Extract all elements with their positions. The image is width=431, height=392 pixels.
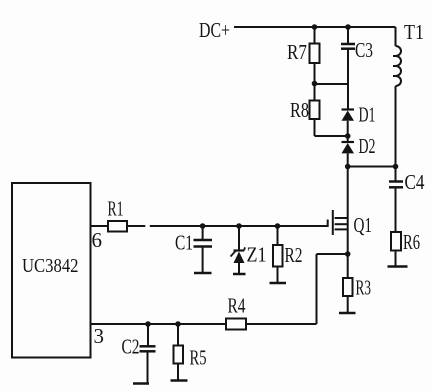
- svg-text:C1: C1: [175, 231, 193, 255]
- node junction top rail / C3: [345, 24, 351, 30]
- resistor R1: [108, 197, 128, 232]
- zener diode Z1: [231, 226, 267, 274]
- node junction T1/C4: [393, 164, 399, 170]
- resistor R4: [226, 294, 246, 330]
- svg-text:Z1: Z1: [247, 243, 267, 267]
- svg-text:T1: T1: [404, 20, 424, 44]
- svg-text:R1: R1: [108, 197, 124, 221]
- resistor R7: [287, 27, 320, 84]
- svg-text:R6: R6: [403, 230, 420, 254]
- transistor Q1 (MOSFET): [328, 210, 372, 237]
- node junction R7/R8: [312, 81, 318, 87]
- transformer T1: [393, 20, 424, 167]
- capacitor C2: [122, 324, 156, 384]
- wire bottom rail pin3: [91, 323, 317, 325]
- svg-text:R3: R3: [356, 276, 372, 300]
- wire pin6 gate (left part): [91, 225, 146, 227]
- resistor R3: [339, 254, 371, 313]
- svg-text:3: 3: [94, 324, 105, 348]
- node junction C2: [145, 321, 151, 327]
- wire R7 bottom to C3 branch: [315, 83, 349, 85]
- svg-text:C3: C3: [355, 38, 373, 62]
- wire Q1 source to left: [317, 253, 348, 255]
- node DC+ label: [199, 18, 230, 42]
- svg-text:6: 6: [92, 228, 103, 252]
- resistor R8: [290, 84, 320, 137]
- svg-text:DC+: DC+: [199, 18, 230, 42]
- IC U1 UC3842: [12, 183, 91, 358]
- svg-text:R7: R7: [287, 40, 307, 64]
- resistor R2: [270, 226, 303, 283]
- pin 3 label: [94, 324, 105, 348]
- node junction Z1: [236, 223, 242, 229]
- capacitor C3: [341, 27, 373, 110]
- wire top rail DC+: [234, 26, 396, 28]
- svg-text:D1: D1: [359, 103, 376, 127]
- diode D2: [342, 134, 376, 167]
- wire drain (D2 node down to Q1): [347, 167, 349, 255]
- wire source sense down: [316, 254, 318, 324]
- node junction top rail / R7: [312, 24, 318, 30]
- wire R8 bottom to D1/D2 node: [315, 135, 348, 137]
- node junction R5: [175, 321, 181, 327]
- node junction D2 / drain rail: [345, 164, 351, 170]
- resistor R6: [388, 230, 421, 267]
- svg-text:R2: R2: [285, 243, 303, 267]
- diode D1: [342, 103, 376, 137]
- node junction D1/D2/R8: [345, 133, 351, 139]
- wire pin6 gate (right part): [150, 225, 328, 227]
- node junction C1: [200, 223, 206, 229]
- capacitor C4: [389, 167, 425, 233]
- capacitor C1: [175, 226, 212, 273]
- node junction Q1 source: [345, 251, 351, 257]
- resistor R5: [171, 324, 207, 381]
- svg-text:UC3842: UC3842: [22, 255, 79, 277]
- svg-text:R5: R5: [190, 346, 207, 370]
- svg-text:D2: D2: [359, 134, 376, 158]
- svg-text:R8: R8: [290, 98, 309, 122]
- pin 6 label: [92, 228, 103, 252]
- wire D2 node to T1/C4: [348, 166, 396, 168]
- svg-text:C4: C4: [405, 170, 425, 194]
- node junction R2: [275, 223, 281, 229]
- svg-text:Q1: Q1: [354, 213, 373, 237]
- svg-text:R4: R4: [228, 294, 246, 318]
- svg-text:C2: C2: [122, 335, 140, 359]
